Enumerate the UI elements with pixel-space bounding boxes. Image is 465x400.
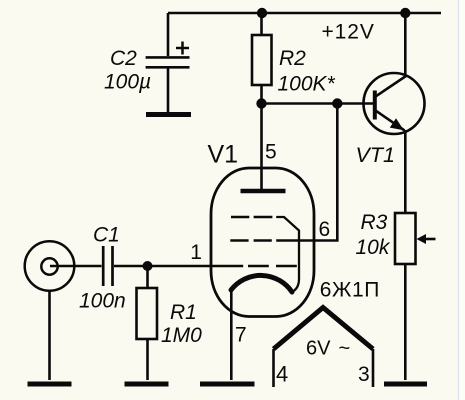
svg-text:6V: 6V: [306, 337, 331, 359]
svg-text:C1: C1: [93, 223, 120, 246]
R3 wiper arrow: [417, 234, 436, 244]
grid g3 dashes: [231, 216, 272, 219]
resistor R1: [137, 288, 158, 339]
transistor VT1: [364, 73, 425, 134]
resistor R3: [395, 213, 416, 264]
svg-text:7: 7: [235, 324, 247, 347]
svg-text:V1: V1: [208, 141, 239, 169]
tube V1 envelope: [211, 168, 314, 317]
wire base rail: [262, 102, 374, 105]
node top R2: [257, 8, 267, 18]
svg-text:1M0: 1M0: [161, 324, 202, 347]
cathode: [231, 275, 292, 292]
wire collector lead: [404, 13, 407, 76]
wire R1 top lead: [146, 266, 149, 288]
ground R1: [125, 382, 169, 387]
ground R3: [384, 382, 427, 387]
input connector J1: [25, 241, 75, 291]
ground input: [28, 382, 72, 387]
wire C2 top lead: [167, 13, 170, 56]
anode plate: [241, 189, 286, 194]
svg-text:6Ж1П: 6Ж1П: [320, 279, 380, 302]
wire input to C1: [50, 265, 102, 268]
wire g1 pin 1: [148, 265, 244, 268]
svg-text:R2: R2: [279, 47, 306, 70]
wire emitter lead: [404, 130, 407, 213]
svg-text:~: ~: [339, 337, 351, 359]
capacitor C2: [146, 42, 190, 68]
wire heater pin 4: [272, 349, 275, 387]
wire screen g2 to node: [276, 104, 337, 241]
resistor R2: [252, 35, 272, 85]
svg-text:C2: C2: [110, 47, 137, 70]
wire top rail +12V: [168, 12, 441, 15]
svg-text:100K*: 100K*: [278, 73, 336, 96]
wire R3 bottom lead: [404, 264, 407, 380]
wire plate lead pin 5: [260, 104, 263, 190]
wire cathode lead pin 7: [230, 291, 233, 380]
wire heater pin 3: [372, 349, 375, 387]
node C1 R1: [143, 261, 153, 271]
node screen wire: [332, 98, 342, 108]
grid g3 to cathode link: [276, 217, 299, 293]
grid g1 dashes: [248, 265, 297, 268]
svg-text:4: 4: [276, 362, 288, 387]
wire R1 bottom lead: [146, 339, 149, 380]
svg-text:10k: 10k: [356, 236, 391, 259]
heater filament: [274, 308, 374, 350]
svg-text:3: 3: [358, 363, 370, 386]
svg-text:VT1: VT1: [356, 143, 395, 167]
wire R2 bottom lead: [260, 85, 263, 104]
ground C2: [146, 112, 191, 117]
ground cathode: [200, 382, 255, 387]
node R2 bottom: [256, 98, 266, 108]
page edge strip: [459, 0, 465, 400]
svg-text:+12V: +12V: [322, 20, 375, 43]
capacitor C1: [103, 246, 112, 286]
svg-text:R3: R3: [361, 211, 388, 234]
grid g2 dashes: [230, 239, 272, 242]
wire input ground lead: [48, 291, 51, 380]
wire C1 to node: [114, 265, 148, 268]
svg-text:100µ: 100µ: [104, 71, 151, 94]
wire R2 top lead: [260, 13, 263, 35]
svg-text:R1: R1: [170, 301, 197, 324]
svg-text:1: 1: [190, 241, 202, 264]
svg-text:5: 5: [265, 141, 277, 164]
wire C2 bottom lead: [167, 68, 170, 112]
node top VT1: [400, 8, 410, 18]
svg-text:100n: 100n: [79, 290, 126, 313]
svg-text:6: 6: [319, 218, 331, 241]
